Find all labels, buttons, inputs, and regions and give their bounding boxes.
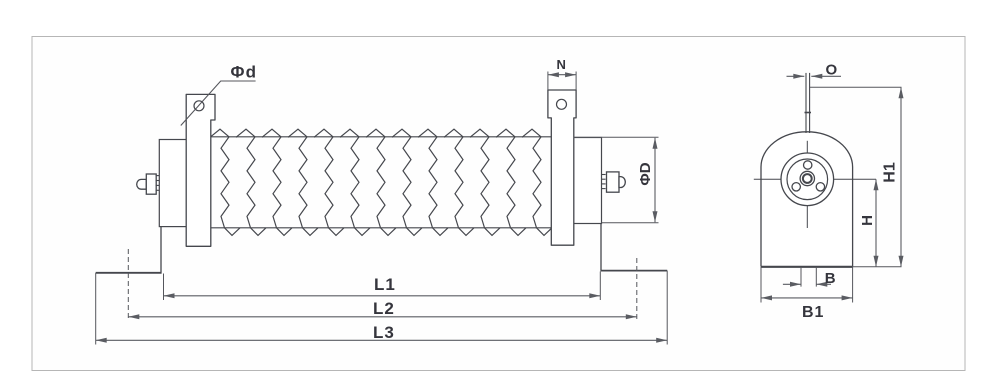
right mounting foot	[600, 224, 602, 271]
wirewound winding zigzag pattern	[210, 129, 552, 235]
tube end outer circle	[781, 153, 834, 206]
right mounting bracket	[548, 90, 576, 245]
dimension L1 line	[164, 295, 601, 297]
center hub nut	[800, 171, 814, 185]
dimension Phi-D line	[654, 138, 656, 223]
end view center lines	[806, 141, 808, 228]
B1 extension lines	[760, 267, 762, 303]
svg-text:ΦD: ΦD	[637, 162, 654, 185]
right end cap	[574, 138, 602, 224]
dimension O leaders	[787, 75, 805, 77]
dimension L3 line	[96, 339, 668, 341]
dimension H line	[875, 179, 877, 266]
tube end inner circle	[787, 159, 828, 200]
H1 bottom extension line	[853, 266, 902, 268]
svg-text:L3: L3	[373, 323, 395, 342]
svg-text:L2: L2	[373, 299, 395, 318]
svg-text:H: H	[859, 215, 876, 226]
dimension N extension lines	[547, 72, 549, 91]
left mounting bracket	[186, 94, 215, 246]
dimension H1 line	[900, 87, 902, 267]
right terminal bolt	[602, 172, 626, 192]
svg-text:L1: L1	[374, 275, 396, 294]
dimension N line	[548, 74, 576, 76]
svg-text:N: N	[557, 57, 566, 72]
dimension B1 line	[761, 297, 853, 299]
resistor tube body outline	[207, 136, 553, 138]
dimension leader Phi-d	[181, 81, 256, 126]
dimension B leaders	[783, 283, 801, 285]
left mounting foot	[160, 227, 162, 273]
svg-text:H1: H1	[882, 162, 899, 183]
L3 extension lines	[95, 273, 97, 345]
dimension L2 line	[128, 316, 637, 318]
left bracket hole	[194, 101, 204, 111]
svg-text:O: O	[826, 62, 838, 79]
top tab (bracket edge-on)	[805, 73, 807, 133]
right bracket hole	[557, 99, 567, 109]
B extension lines	[800, 267, 802, 287]
svg-text:B1: B1	[802, 304, 824, 321]
end view bottom edge	[761, 266, 853, 268]
L1 extension lines	[163, 274, 165, 301]
satellite lug circles	[804, 161, 812, 169]
left end cap	[159, 140, 188, 227]
L2 extension lines (dashed hole centers)	[127, 249, 129, 321]
end view arch body	[761, 132, 853, 267]
H1 top extension line	[810, 86, 902, 88]
svg-text:Φd: Φd	[231, 63, 258, 82]
dimension Phi-D extension lines	[574, 136, 659, 138]
left terminal bolt	[137, 174, 160, 194]
svg-text:B: B	[825, 270, 836, 287]
